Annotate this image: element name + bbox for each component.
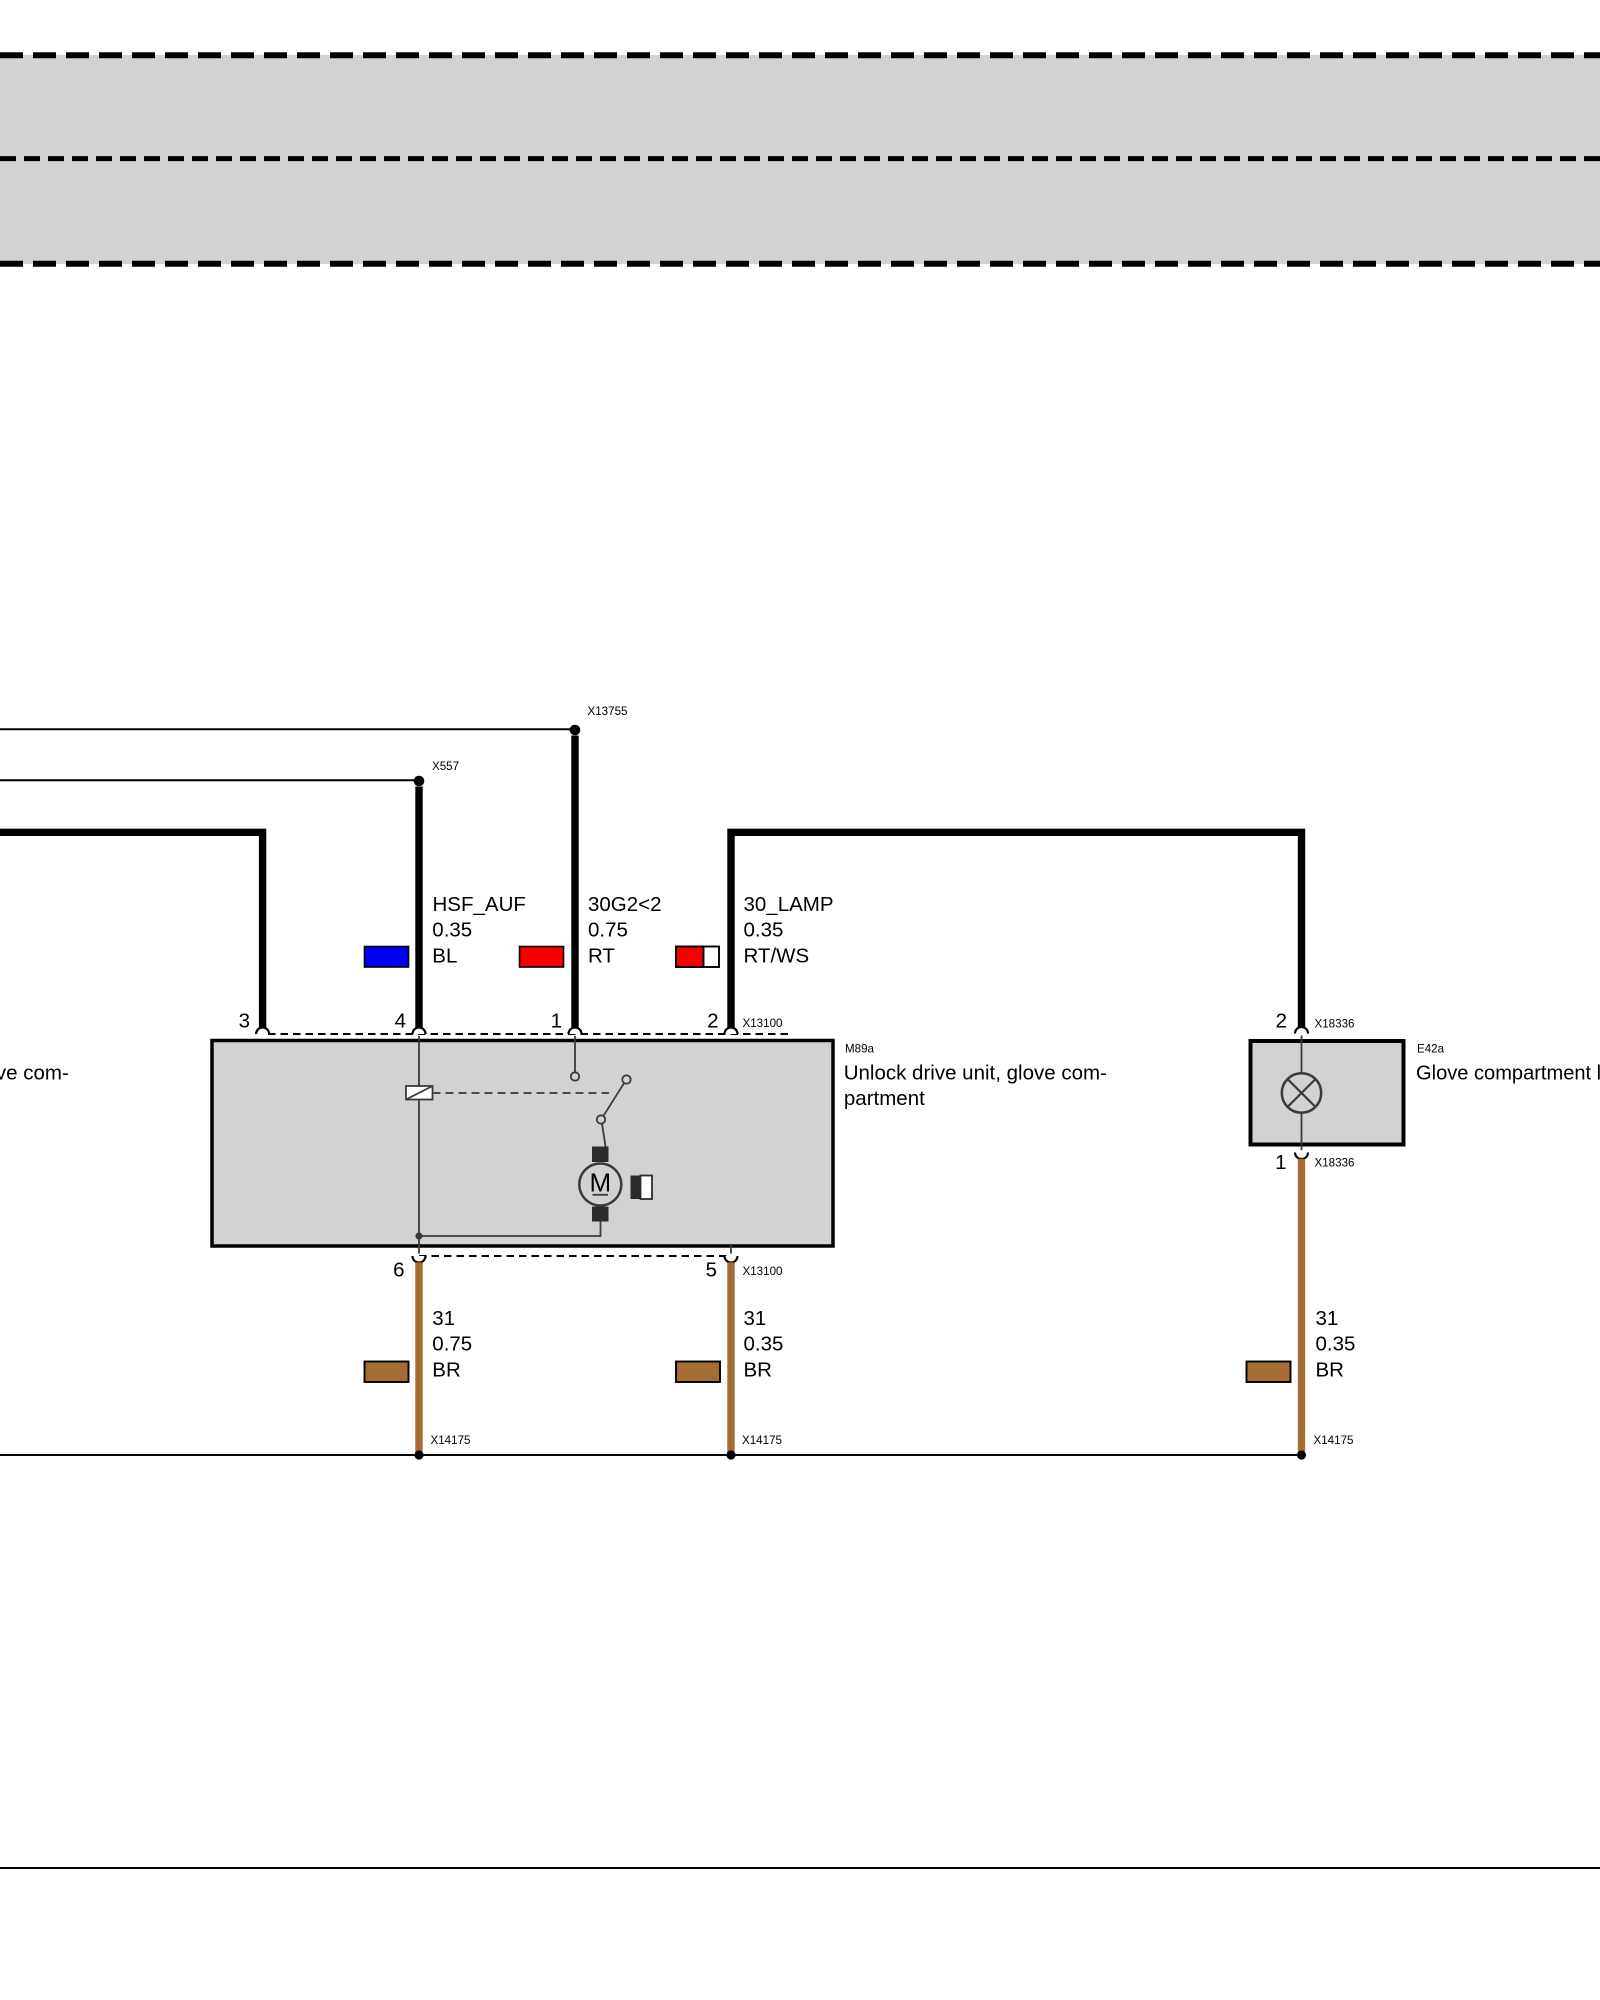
connector socket pin 6	[413, 1256, 426, 1263]
top band upper dashed border	[0, 52, 1600, 58]
M89a internal: pin1 lead to switch contact	[574, 1036, 576, 1072]
svg-text:1: 1	[1275, 1151, 1286, 1174]
ground junction dot (pin 5 wire)	[726, 1450, 735, 1459]
connector socket pin 4	[413, 1028, 426, 1034]
wire: thick wire X557 to pin 4 of X13100	[415, 787, 422, 1028]
M89a internal: pin4 lead down to ground junction	[418, 1036, 420, 1254]
svg-text:0.35: 0.35	[744, 919, 784, 942]
svg-text:X13100: X13100	[743, 1265, 783, 1278]
M89a internal: motor lower brush	[592, 1207, 609, 1222]
connector X13100 bottom row: dashed line	[419, 1255, 731, 1257]
E42a internal: lead from pin 2 to bulb	[1301, 1036, 1303, 1074]
svg-text:2: 2	[707, 1010, 718, 1033]
svg-text:0.35: 0.35	[1316, 1333, 1356, 1356]
wire: thick wire 30_LAMP from pin 2 of X13100 over to lamp pin 2	[727, 829, 1301, 1028]
M89a internal: lead switch to motor brush	[602, 1124, 606, 1147]
svg-text:HSF_AUF: HSF_AUF	[433, 893, 526, 916]
svg-text:5: 5	[706, 1259, 717, 1282]
svg-text:X14175: X14175	[742, 1434, 782, 1447]
M89a internal: switch fixed contact circle	[571, 1072, 579, 1080]
wire: brown ground wire from lamp pin 1	[1298, 1159, 1305, 1452]
svg-text:Glove compartment light: Glove compartment light	[1416, 1061, 1600, 1084]
svg-text:6: 6	[393, 1259, 404, 1282]
svg-text:31: 31	[744, 1307, 767, 1330]
svg-text:X14175: X14175	[1314, 1434, 1354, 1447]
wire colour swatch RT (red)	[520, 947, 564, 968]
M89a internal: motor M1 circle	[579, 1164, 621, 1206]
ground bus line X14175	[0, 1454, 1302, 1456]
svg-text:0.35: 0.35	[432, 919, 472, 942]
wire colour swatch BL (blue)	[365, 947, 409, 968]
svg-text:M89a: M89a	[845, 1042, 875, 1055]
svg-text:BR: BR	[744, 1359, 772, 1382]
wire: brown ground wire from pin 5	[727, 1262, 734, 1451]
svg-text:BL: BL	[432, 944, 457, 967]
E42a internal: bulb cross diagonal 1	[1288, 1079, 1316, 1107]
E42a internal: bulb cross diagonal 2	[1288, 1079, 1316, 1107]
svg-text:E42a: E42a	[1417, 1042, 1445, 1055]
connector socket pin 2	[725, 1028, 738, 1034]
M89a internal: motor return wire to junction	[419, 1222, 601, 1237]
connector socket pin 3	[256, 1028, 269, 1034]
M89a internal: relay coil	[406, 1086, 433, 1100]
svg-text:3: 3	[239, 1010, 250, 1033]
connector socket pin 5	[725, 1256, 738, 1263]
M89a internal: relay actuation dashed link	[433, 1092, 610, 1094]
svg-text:2: 2	[1276, 1010, 1287, 1033]
svg-text:4: 4	[395, 1010, 406, 1033]
wire: thick wire X13755 to pin 1 of X13100	[571, 736, 578, 1028]
node X13755 junction dot	[570, 725, 581, 736]
svg-text:X18336: X18336	[1315, 1017, 1355, 1030]
wire colour swatch BR (brown, lamp)	[1247, 1362, 1291, 1383]
connector socket pin 1	[569, 1028, 582, 1034]
svg-text:0.35: 0.35	[744, 1333, 784, 1356]
connector X13100 top dashed line	[268, 1033, 788, 1035]
svg-text:ve com-: ve com-	[0, 1061, 69, 1084]
svg-text:0.75: 0.75	[588, 919, 628, 942]
M89a internal: switch lower contact circle	[597, 1115, 605, 1123]
svg-text:X13100: X13100	[743, 1017, 783, 1030]
M89a internal: switch pivot contact circle	[622, 1075, 630, 1083]
component M89a box: Unlock drive unit glove compartment	[212, 1041, 833, 1247]
M89a internal: suppression capacitor light half	[641, 1176, 653, 1200]
bottom frame separator line	[0, 1867, 1600, 1869]
wire colour swatch BR (brown, pin 5)	[676, 1362, 720, 1383]
svg-text:X557: X557	[432, 760, 459, 773]
svg-text:0.75: 0.75	[432, 1333, 472, 1356]
ground junction dot (pin 6 wire)	[414, 1450, 423, 1459]
ground junction dot (lamp wire)	[1297, 1450, 1306, 1459]
svg-text:X14175: X14175	[431, 1434, 471, 1447]
top band lower dashed border	[0, 261, 1600, 267]
svg-text:RT/WS: RT/WS	[744, 944, 810, 967]
wire colour swatch BR (brown, pin 6)	[365, 1362, 409, 1383]
svg-text:BR: BR	[1316, 1359, 1344, 1382]
E42a internal: bulb circle	[1282, 1073, 1321, 1112]
svg-text:30G2<2: 30G2<2	[588, 893, 662, 916]
wire: thin feed line to node X557	[0, 779, 419, 781]
svg-text:Unlock drive unit, glove com-: Unlock drive unit, glove com-	[844, 1061, 1107, 1084]
wire: thin feed line to node X13755	[0, 728, 575, 730]
svg-text:RT: RT	[588, 944, 615, 967]
connector socket lamp pin 2	[1295, 1027, 1308, 1034]
connector socket lamp pin 1	[1295, 1153, 1308, 1160]
top band middle dashed divider	[0, 156, 1600, 161]
M89a internal: motor M underline	[593, 1194, 609, 1196]
wire: brown ground wire from pin 6	[415, 1262, 422, 1451]
wire colour swatch RT/WS (red/white)	[676, 947, 719, 968]
M89a internal: motor upper brush	[592, 1147, 609, 1163]
top option band (gray)	[0, 55, 1600, 264]
M89a internal: suppression capacitor dark half	[631, 1176, 641, 1200]
svg-text:31: 31	[432, 1307, 455, 1330]
svg-text:31: 31	[1316, 1307, 1339, 1330]
svg-text:partment: partment	[844, 1087, 925, 1110]
M89a internal: pin5 stub	[730, 1245, 732, 1254]
svg-text:1: 1	[551, 1010, 562, 1033]
M89a internal: switch arm	[604, 1083, 625, 1116]
component E42a box: glove compartment light	[1251, 1041, 1404, 1145]
svg-text:X13755: X13755	[588, 705, 628, 718]
svg-text:M: M	[589, 1168, 611, 1198]
E42a internal: lead from bulb to pin 1	[1301, 1113, 1303, 1150]
svg-text:BR: BR	[432, 1359, 460, 1382]
wire: thick supply wire into pin 3 of X13100	[0, 832, 263, 1027]
M89a internal: ground junction dot	[415, 1232, 422, 1239]
node X557 junction dot	[414, 776, 425, 787]
svg-text:30_LAMP: 30_LAMP	[744, 893, 834, 916]
svg-text:X18336: X18336	[1315, 1156, 1355, 1169]
